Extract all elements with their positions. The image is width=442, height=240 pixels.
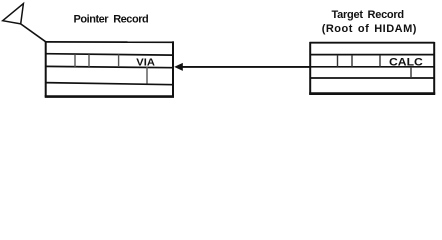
pointer record row3 field divider <box>146 67 148 84</box>
pointer record row divider 3 <box>45 83 173 85</box>
pointer record field divider b <box>88 54 90 67</box>
pointer arrowhead <box>174 63 183 71</box>
target record field divider c <box>379 55 381 67</box>
wire from triangle to pointer record box <box>21 24 47 42</box>
pointer arrow wire from target record to pointer record <box>181 66 310 68</box>
pointer record field divider c <box>118 54 120 67</box>
svg-text:(Root of HIDAM): (Root of HIDAM) <box>322 23 417 35</box>
pointer-origin triangle symbol <box>3 4 24 24</box>
target record row3 field divider <box>410 67 412 78</box>
svg-text:CALC: CALC <box>389 57 423 69</box>
target record field divider a <box>337 55 339 67</box>
pointer record row divider 1 <box>45 54 173 55</box>
pointer record row divider 2 <box>45 66 173 67</box>
target record row divider 2 <box>310 66 434 68</box>
svg-text:Target Record: Target Record <box>332 9 404 21</box>
target record row divider 1 <box>310 54 434 56</box>
svg-text:VIA: VIA <box>136 57 155 69</box>
svg-text:Pointer Record: Pointer Record <box>74 13 149 25</box>
pointer record box outline <box>45 41 174 97</box>
pointer record field divider a <box>74 54 76 67</box>
target record row divider 3 <box>310 77 434 79</box>
target record box outline <box>309 42 435 95</box>
target record field divider b <box>351 55 353 67</box>
